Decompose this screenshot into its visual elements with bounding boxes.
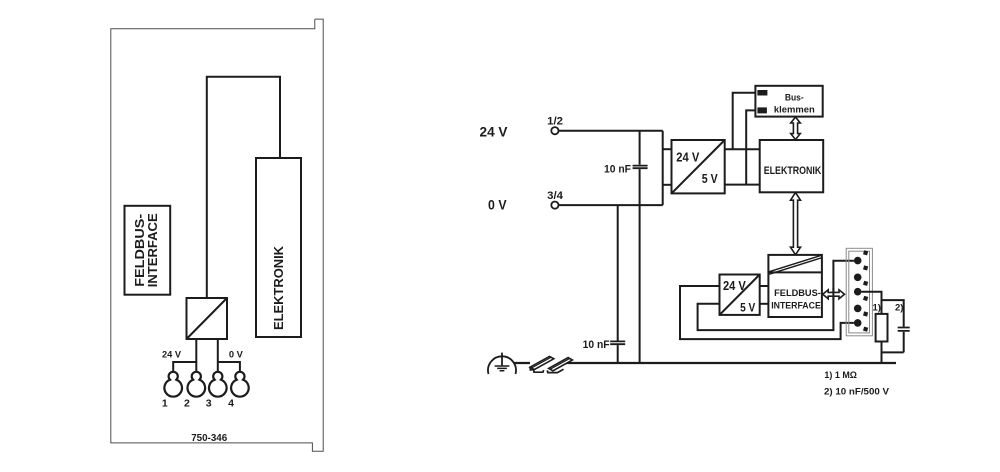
capacitor C1 plates (633, 166, 648, 169)
DIN rail symbol right bar inner edge (550, 358, 570, 369)
svg-text:0 V: 0 V (488, 198, 507, 213)
svg-text:24 V: 24 V (723, 279, 746, 293)
capacitor C1 lead lower to earth rail (639, 169, 641, 363)
DC/DC converter (left module) (187, 298, 228, 339)
DIN rail symbol right bar (549, 358, 573, 371)
wire stub U2 to FELDBUS-INTERFACE lower (760, 303, 769, 305)
svg-text:Bus-: Bus- (785, 93, 804, 104)
protective earth bars (495, 366, 510, 371)
box ELEKTRONIK (right) (760, 140, 824, 192)
wire 0V horizontal (559, 204, 663, 206)
connector pin circle 5 (854, 319, 862, 327)
wire stub to converter 0V input (663, 184, 672, 186)
capacitor C1 10nF lead upper (639, 131, 641, 165)
svg-text:10 nF: 10 nF (604, 164, 631, 176)
svg-text:24 V: 24 V (480, 124, 508, 139)
wire jumper 0V contacts 3-4 (218, 362, 240, 372)
capacitor C3 plates (898, 328, 910, 331)
svg-text:2: 2 (184, 397, 190, 409)
protective earth symbol stem (501, 353, 503, 366)
wire U2 24V input outer loop to connector pin 5 (680, 286, 854, 339)
wire U1 lower output to Bus-klemmen pin 2 (746, 110, 757, 184)
diagonal of DC/DC converter (left module) (187, 298, 228, 339)
double arrow Bus-klemmen / ELEKTRONIK (791, 117, 801, 140)
svg-text:24 V: 24 V (676, 150, 700, 164)
pin contact 2 of Bus-klemmen (757, 107, 767, 113)
protective earth circle arc (488, 356, 516, 374)
power contact 2 (188, 372, 206, 397)
resistor R1 1 MOhm (876, 314, 888, 342)
terminal circle 1/2 (551, 127, 558, 134)
svg-text:1: 1 (162, 397, 168, 409)
wire stub U1 output lower to ELEKTRONIK (725, 184, 760, 186)
DIN rail symbol base (534, 369, 564, 372)
wire DC/DC to contact 3 (217, 339, 219, 372)
connector blade contact 5 (863, 311, 868, 316)
capacitor C2 10nF lead upper (617, 205, 619, 340)
DIN rail symbol left bar inner edge (532, 357, 552, 368)
svg-text:INTERFACE: INTERFACE (145, 213, 160, 287)
wire connector pin 3 to resistor (862, 292, 882, 314)
svg-text:1): 1) (873, 303, 881, 314)
connector blade contact 3 (863, 281, 868, 286)
connector blade contact 6 (863, 327, 868, 332)
box FELDBUS-INTERFACE (left module) (125, 206, 171, 295)
diagonal of converter U1 (672, 140, 725, 193)
power contact 1 (164, 372, 182, 397)
wire stub U2 to FELDBUS-INTERFACE upper (760, 285, 769, 287)
capacitor C2 lead lower to earth rail (617, 345, 619, 363)
DC/DC converter U2 24V/5V (720, 275, 760, 315)
svg-text:ELEKTRONIK: ELEKTRONIK (764, 165, 822, 177)
earth rail (514, 362, 896, 364)
svg-text:2): 2) (895, 303, 903, 314)
divider of isolation bar (768, 271, 822, 273)
wire U1 upper output to Bus-klemmen pin 1 (733, 93, 758, 150)
module outline 750-346 (111, 19, 323, 451)
isolation bar double diagonal (769, 255, 822, 274)
connector pin circle 2 (854, 274, 862, 282)
svg-text:4: 4 (228, 397, 234, 409)
svg-text:INTERFACE: INTERFACE (771, 301, 821, 312)
svg-text:klemmen: klemmen (774, 104, 815, 115)
svg-text:5 V: 5 V (740, 301, 755, 315)
double arrow ELEKTRONIK / FELDBUS-INTERFACE (791, 193, 801, 255)
box FELDBUS-INTERFACE with isolation bar (768, 255, 822, 317)
connector pin circle 3 (854, 288, 862, 296)
DIN rail symbol left foot (530, 367, 534, 370)
power contact 3 (209, 372, 227, 397)
connector inner frame (849, 251, 870, 333)
wire branch C3 to resistor lead (882, 351, 904, 353)
power contact 4 (231, 372, 249, 397)
connector blade contact 4 (863, 296, 868, 301)
svg-text:24 V: 24 V (162, 350, 182, 361)
svg-text:FELDBUS-: FELDBUS- (774, 288, 821, 299)
svg-text:2) 10 nF/500 V: 2) 10 nF/500 V (824, 387, 890, 398)
capacitor C2 plates (610, 341, 625, 344)
terminal circle 3/4 (551, 202, 558, 209)
connector blade contact 2 (863, 265, 868, 270)
connector pin circle 4 (854, 305, 862, 313)
DC/DC converter U1 24V/5V (672, 140, 725, 193)
wire resistor R1 to earth rail (881, 342, 883, 364)
pin contact 1 of Bus-klemmen (757, 90, 767, 96)
svg-text:1/2: 1/2 (547, 115, 563, 127)
svg-text:1) 1 MΩ: 1) 1 MΩ (824, 370, 857, 381)
svg-text:10 nF: 10 nF (583, 339, 610, 351)
double arrow ELEKTRONIK / connector (horizontal) (823, 290, 845, 299)
wire U2 input inner loop to connector pin 1 (698, 261, 854, 330)
wire stub to converter 24V input (663, 148, 672, 150)
box ELEKTRONIK (left module) (256, 158, 301, 337)
connector outer frame (846, 248, 872, 335)
wire DC/DC to contact 2 (195, 339, 197, 372)
svg-text:3: 3 (206, 397, 212, 409)
wire jumper 24V contacts 1-2 (173, 362, 196, 372)
wire from DC/DC top to ELEKTRONIK top (left module) (207, 77, 280, 298)
connector blade contact 1 (863, 250, 868, 255)
connector pin circle 1 (854, 257, 862, 265)
svg-text:3/4: 3/4 (547, 190, 564, 202)
wire 24V horizontal (559, 130, 663, 132)
svg-text:ELEKTRONIK: ELEKTRONIK (271, 245, 286, 330)
svg-text:750-346: 750-346 (191, 432, 227, 444)
diagonal of converter U2 (720, 275, 760, 315)
capacitor C3 lead lower (903, 332, 905, 353)
wire crossing over arrow (pin 1 loop) (832, 288, 834, 300)
wire stub U1 output upper to ELEKTRONIK (725, 148, 760, 150)
svg-text:0 V: 0 V (229, 350, 244, 361)
svg-text:5 V: 5 V (702, 172, 718, 186)
box Bus-klemmen (755, 86, 822, 117)
DIN rail symbol left bar (530, 356, 554, 369)
wire branch to capacitor C3 (882, 300, 904, 327)
wire vertical to converter stubs (662, 131, 664, 205)
